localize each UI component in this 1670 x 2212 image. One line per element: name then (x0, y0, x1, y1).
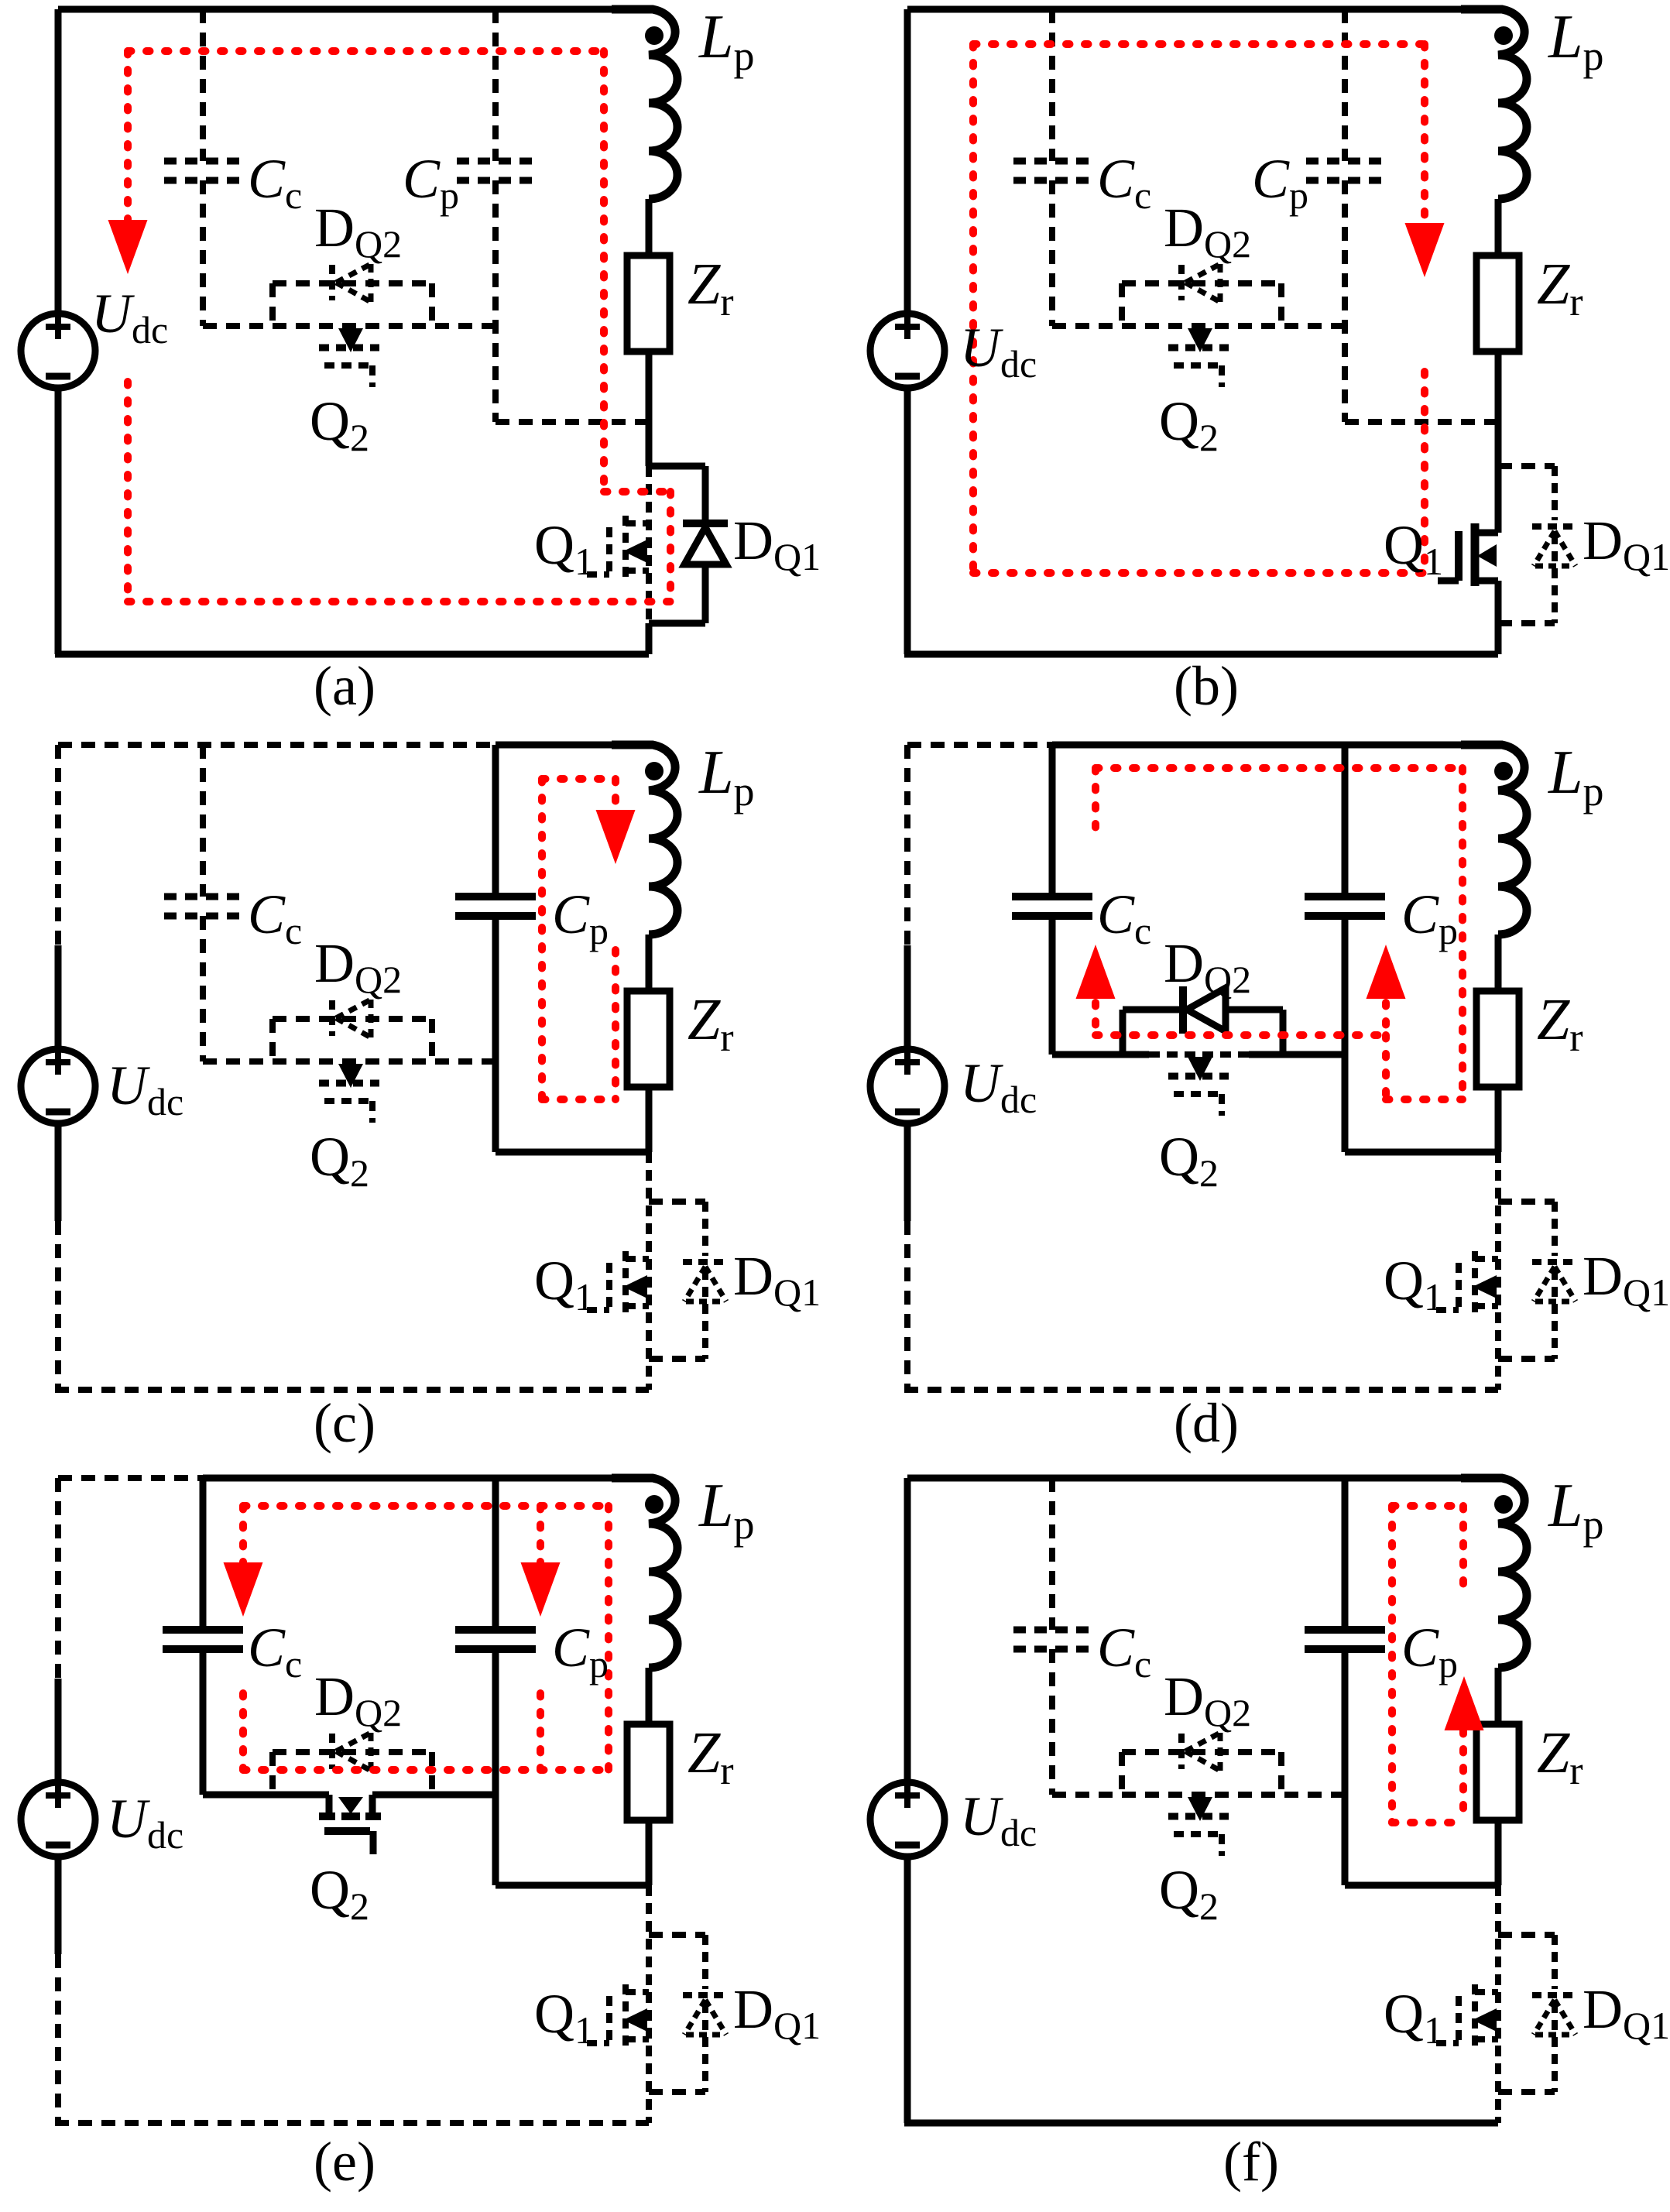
svg-text:(b): (b) (1174, 655, 1239, 717)
svg-text:(e): (e) (314, 2131, 375, 2193)
svg-text:(c): (c) (314, 1392, 375, 1454)
svg-text:(a): (a) (314, 655, 375, 717)
svg-text:(d): (d) (1174, 1392, 1239, 1454)
svg-text:(f): (f) (1223, 2131, 1279, 2193)
